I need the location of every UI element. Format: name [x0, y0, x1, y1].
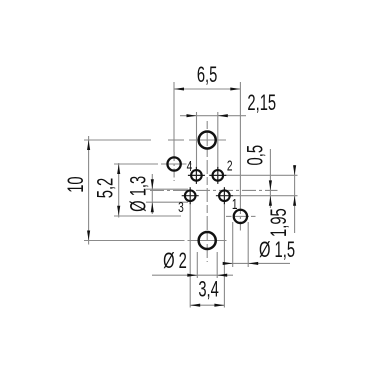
hole: circle O1,5 upper-left: [167, 157, 180, 170]
arrow: O2 left (outside): [187, 274, 197, 277]
svg-text:0,5: 0,5: [243, 145, 268, 165]
wire: O1,5 dimension line: [223, 262, 290, 264]
arrow: 10 bottom: [87, 231, 90, 241]
wire: O2 left edge extension line: [196, 252, 198, 278]
arrow: 2,15 right (outside): [218, 114, 228, 117]
dimension texts: [63, 62, 295, 301]
svg-text:Ø 1,3: Ø 1,3: [126, 176, 151, 212]
arrow: 6,5 right: [230, 87, 240, 90]
arrow: 2,15 left (outside): [187, 114, 197, 117]
wire: O1,3 bottom edge extension line: [146, 201, 188, 203]
arrow: O1,5 right (outside): [248, 262, 258, 265]
arrow: 10 top: [87, 140, 90, 150]
arrow: 0,5 bottom (outside): [269, 196, 272, 206]
svg-text:5,2: 5,2: [92, 178, 117, 198]
wire: O2 dimension line: [152, 274, 233, 276]
wire: 2,15 right extension line (to pin 2): [217, 112, 219, 169]
arrow: 1,95 top (outside): [293, 165, 296, 175]
wire: 6,5 left extension line (to circle 5): [173, 82, 175, 152]
arrow: 6,5 left: [174, 87, 184, 90]
wire: O1,3 dimension line vertical: [151, 174, 153, 214]
svg-text:1,95: 1,95: [266, 208, 291, 237]
arrow: O1,5 left (outside): [223, 262, 233, 265]
wire: 10 extension line top (center line of top hole): [84, 139, 151, 141]
wire: 3,4 right extension line (from pin 5 hole): [223, 203, 225, 308]
wire: O1,5 right edge extension line: [247, 222, 249, 267]
hole: bottom mounting hole O2: [199, 232, 216, 249]
hole: pin 2 O1,3: [213, 170, 224, 181]
wire: 5,2 top extension line (row of circle 5): [114, 163, 158, 165]
svg-text:6,5: 6,5: [197, 62, 217, 87]
arrow: 5,2 top: [117, 164, 120, 174]
svg-text:3,4: 3,4: [198, 277, 218, 302]
wire: lower pin row extension line to right: [232, 195, 298, 197]
wire: O1,3 top edge extension line: [146, 188, 188, 190]
hole: pin 3 O1,3: [185, 190, 196, 201]
arrowheads: [87, 87, 296, 306]
centerline: horizontal dash-dot through top hole: [168, 139, 184, 141]
pin cross marks: [182, 167, 233, 204]
node: pin 4 cross: [188, 174, 205, 176]
hole: circle O1,5 lower-right (pin 1): [234, 210, 247, 223]
svg-text:3: 3: [178, 198, 184, 216]
arrow: 3,4 right: [214, 304, 224, 307]
wire: 3,4 dimension line: [190, 304, 224, 306]
hole: lower right pin O1,3: [219, 190, 230, 201]
centerline: vertical dash-dot through circle 5: [173, 152, 175, 181]
wire: 3,4 left extension line (from pin 3): [189, 203, 191, 308]
svg-text:2,15: 2,15: [247, 90, 276, 115]
arrow: 0,5 top (outside): [269, 180, 272, 190]
arrow: 1,95 bottom (outside): [293, 196, 296, 206]
arrow: O2 right (outside): [217, 274, 227, 277]
svg-text:4: 4: [187, 157, 193, 175]
arrow: O1,3 bottom (outside): [151, 202, 154, 212]
wire: O1,5 left edge extension line: [232, 222, 234, 267]
svg-text:10: 10: [63, 176, 88, 192]
wire: 2,15 left extension line (to pin 4): [196, 112, 198, 169]
wire: 6,5 right extension line (to circle 1): [239, 82, 241, 205]
centerline: main horizontal dash-dot: [150, 189, 278, 191]
node: pin 2 cross: [209, 174, 226, 176]
arrow: 5,2 bottom: [117, 206, 120, 216]
wire: 5,2 dimension line vertical: [118, 163, 120, 218]
wire: 0,5 dimension line vertical: [269, 149, 271, 208]
svg-text:1: 1: [232, 195, 238, 213]
centerline: horizontal dash-dot through circle 1: [226, 215, 232, 217]
arrow: 3,4 left: [190, 304, 200, 307]
centerline: vertical dash-dot below circle 1: [239, 205, 241, 231]
wire: 10 dimension line vertical: [88, 136, 90, 245]
wire: upper pin row extension line to right: [225, 174, 298, 176]
circles: [167, 131, 247, 249]
svg-text:2: 2: [227, 156, 233, 174]
node: lower right pin cross: [216, 195, 233, 197]
wire: 10 extension line bottom (center line of bottom hole): [84, 240, 185, 242]
wire: 1,95 dimension line vertical: [294, 165, 296, 233]
hole: pin 4 O1,3: [191, 170, 202, 181]
wire: 2,15 dimension line: [180, 115, 246, 117]
node: pin 3 cross: [182, 195, 199, 197]
svg-text:Ø 1,5: Ø 1,5: [259, 237, 295, 262]
svg-text:Ø 2: Ø 2: [163, 248, 187, 273]
centerline: main vertical dash-dot: [206, 121, 208, 262]
wire: O2 right edge extension line: [216, 252, 218, 278]
arrow: O1,3 top (outside): [151, 179, 154, 189]
hole: top mounting hole O2: [199, 131, 216, 148]
wire: 5,2 bottom extension line (row of circle 1): [114, 215, 181, 217]
wire: 6,5 dimension line: [174, 88, 240, 90]
